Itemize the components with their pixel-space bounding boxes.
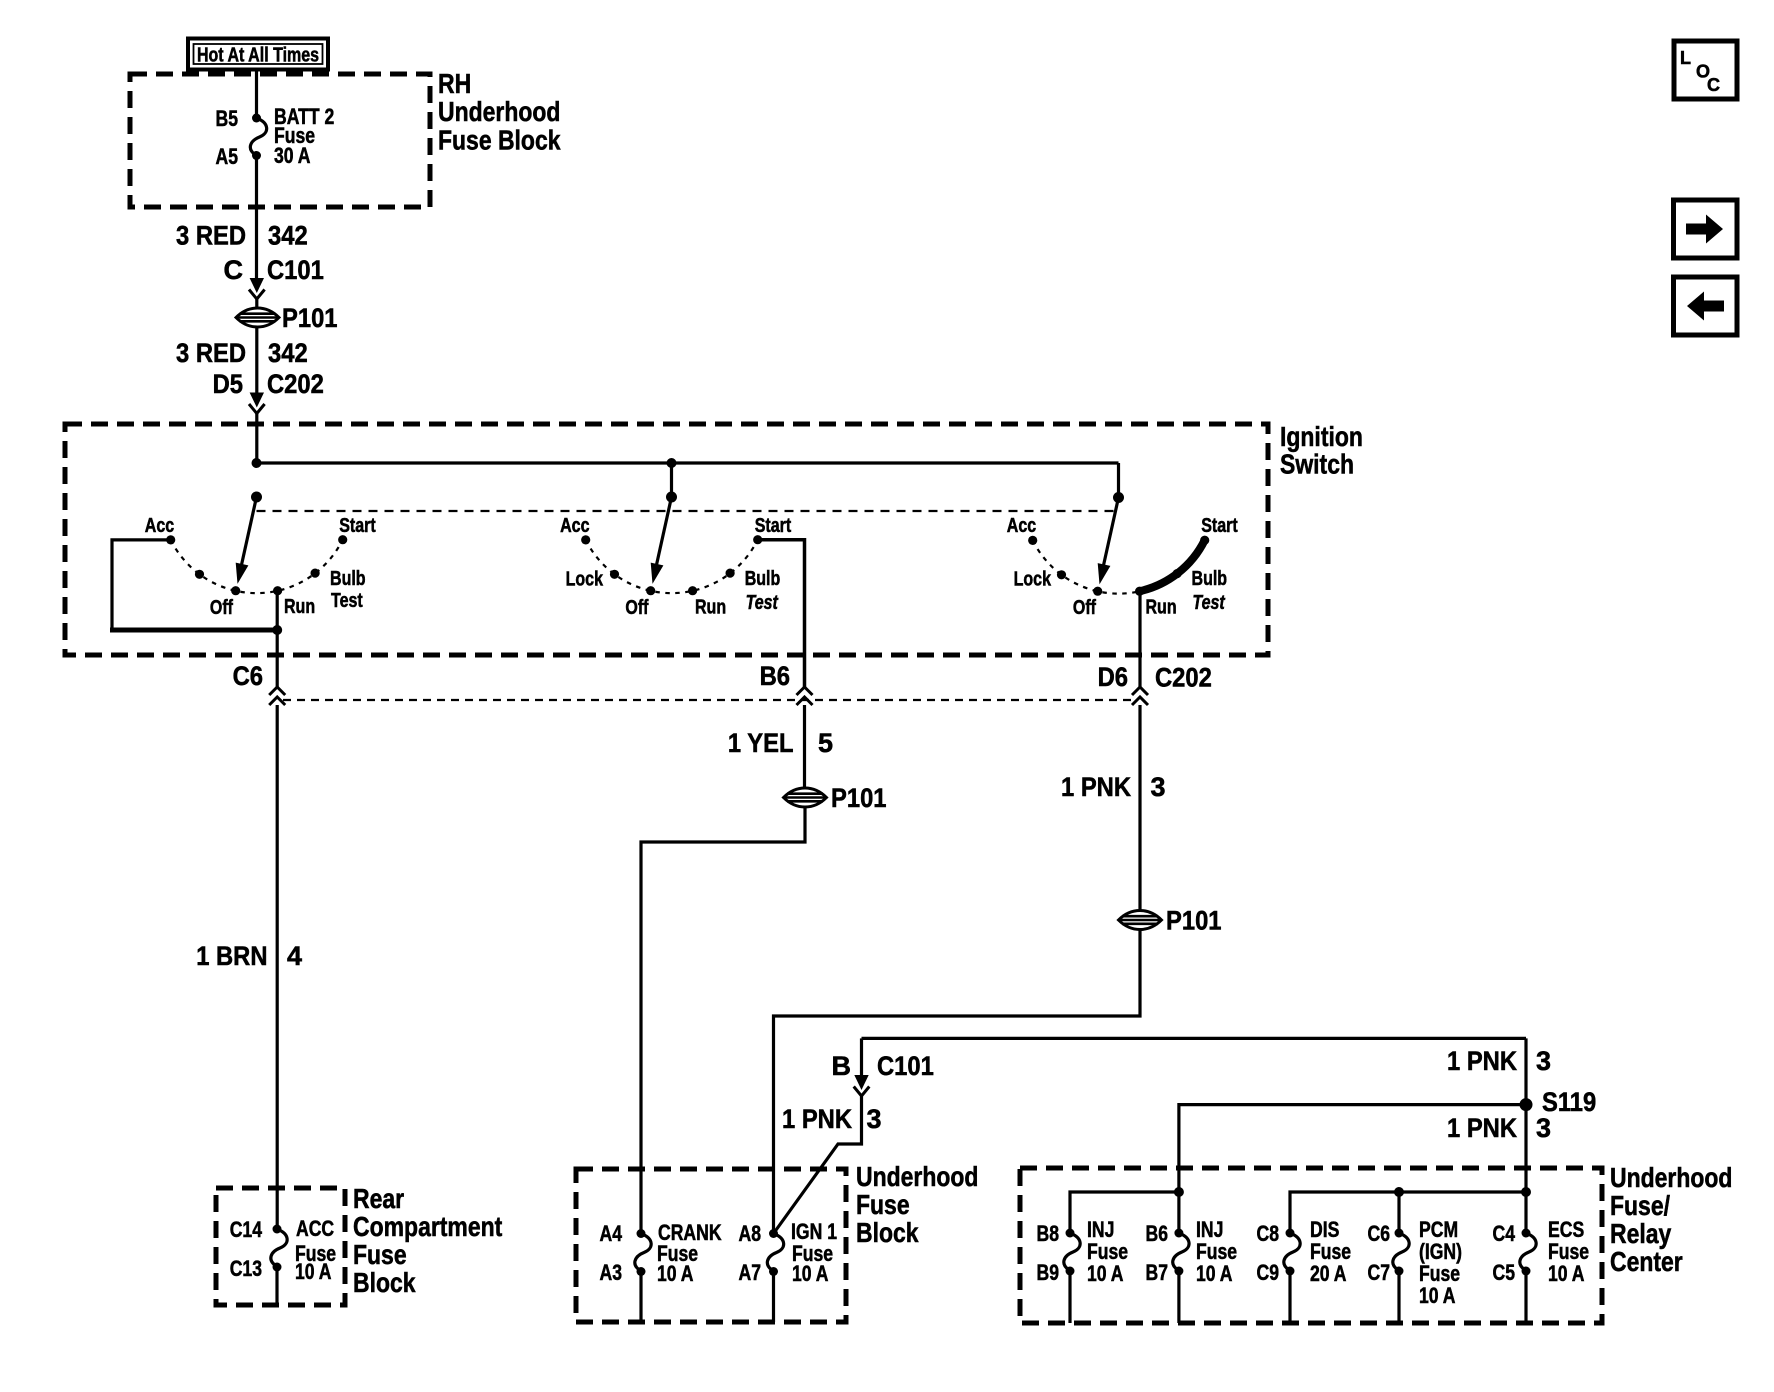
svg-text:A7: A7: [739, 1260, 762, 1285]
svg-text:Fuse/: Fuse/: [1610, 1190, 1670, 1221]
svg-text:Bulb: Bulb: [330, 568, 366, 590]
connector C101 pin B labels: [832, 1051, 934, 1081]
svg-text:3 RED: 3 RED: [176, 221, 246, 251]
svg-text:Compartment: Compartment: [353, 1211, 502, 1242]
grommet P101: [236, 303, 338, 333]
svg-text:20 A: 20 A: [1310, 1261, 1347, 1286]
svg-text:B: B: [832, 1051, 852, 1081]
fuse BATT 2 30 A: [250, 114, 266, 161]
svg-text:Off: Off: [1073, 597, 1096, 619]
svg-text:C6: C6: [233, 661, 263, 691]
wire: down to S119: [1524, 1038, 1527, 1104]
svg-text:C101: C101: [877, 1051, 934, 1081]
wire: 3 RED 342 from fuse A5 to connector C101: [255, 159, 258, 278]
svg-text:D6: D6: [1098, 662, 1128, 692]
value label BATT 2 Fuse 30 A: [274, 104, 334, 168]
svg-text:Acc: Acc: [1007, 515, 1036, 537]
node: junction on INJ bus: [1174, 1187, 1184, 1197]
svg-text:1 BRN: 1 BRN: [196, 941, 267, 971]
node: bus junction at section 2: [667, 458, 677, 468]
svg-text:342: 342: [268, 221, 308, 251]
switch section 3 wiper pivot: [1113, 492, 1124, 503]
svg-text:Center: Center: [1610, 1246, 1683, 1277]
svg-text:10 A: 10 A: [1419, 1283, 1456, 1308]
svg-text:Relay: Relay: [1610, 1218, 1672, 1249]
svg-text:B7: B7: [1146, 1260, 1169, 1285]
wire: bus feeding INJ fuses: [1070, 1192, 1179, 1233]
grommet P101 (yellow wire): [784, 783, 887, 813]
connector C202 (inline arrow): [249, 393, 265, 414]
wire: P101 down and left to CRANK fuse A4: [641, 807, 805, 1234]
svg-text:3 RED: 3 RED: [176, 338, 246, 368]
svg-text:C6: C6: [1368, 1221, 1391, 1246]
connector C202 boundary (thin dashed): [283, 699, 1136, 701]
wire: stub to section 3 wiper: [1117, 463, 1120, 498]
svg-text:Test: Test: [746, 592, 779, 614]
svg-text:Fuse Block: Fuse Block: [438, 125, 561, 156]
wire: INJ fuse 2 output: [1177, 1271, 1180, 1323]
mechanical link (dashed) between wipers: [257, 510, 1119, 512]
wire: [255, 300, 258, 310]
svg-text:Start: Start: [755, 515, 792, 537]
svg-text:10 A: 10 A: [295, 1259, 332, 1284]
svg-text:A8: A8: [739, 1221, 762, 1246]
wire: 1 PNK 3 over to splice S119: [862, 1037, 1527, 1040]
wire label 1 PNK 3: [782, 1104, 882, 1134]
value label INJ Fuse 10 A: [1087, 1217, 1128, 1286]
svg-text:Block: Block: [856, 1217, 919, 1248]
fuse ACC 10 A: [271, 1225, 287, 1272]
fuse INJ 10 A (B6/B7): [1173, 1229, 1189, 1276]
back arrow icon: [1674, 277, 1738, 335]
svg-text:1 PNK: 1 PNK: [1061, 772, 1131, 802]
wire: PCM fuse output: [1397, 1271, 1400, 1323]
svg-text:Underhood: Underhood: [438, 96, 560, 127]
svg-text:Lock: Lock: [1014, 569, 1052, 591]
svg-text:D5: D5: [213, 369, 243, 399]
node: junction at PCM stub: [1394, 1187, 1404, 1197]
LOC legend icon: [1674, 41, 1737, 99]
wire label 1 PNK 3 (below S119): [1447, 1113, 1551, 1143]
connector chevrons at B6: [797, 687, 813, 705]
svg-text:C13: C13: [230, 1256, 262, 1281]
svg-text:Run: Run: [695, 597, 726, 619]
svg-text:A5: A5: [216, 144, 239, 169]
svg-text:Start: Start: [1201, 515, 1238, 537]
switch section 2 contacts and wiper arm: [581, 497, 762, 595]
connector C101 pin C label: [224, 255, 324, 285]
node: bus junction at section 1: [252, 458, 262, 468]
wire into ignition switch: [255, 414, 258, 463]
svg-text:P101: P101: [282, 303, 338, 333]
svg-text:C: C: [224, 255, 244, 285]
wire: C6 to rear compartment fuse block (1 BRN 4): [276, 705, 279, 1229]
fuse DIS 20 A (C8/C9): [1284, 1229, 1300, 1276]
svg-text:342: 342: [268, 338, 308, 368]
svg-text:Run: Run: [284, 596, 315, 618]
node: junction at ECS stub: [1521, 1187, 1531, 1197]
svg-text:Lock: Lock: [566, 569, 604, 591]
wire label 1 YEL 5: [728, 728, 833, 758]
svg-text:Acc: Acc: [560, 515, 589, 537]
grommet P101 (pink wire): [1119, 906, 1222, 936]
svg-text:C202: C202: [267, 369, 324, 399]
svg-text:B9: B9: [1037, 1260, 1060, 1285]
section 1 contact labels: [145, 515, 376, 619]
svg-text:Off: Off: [210, 597, 233, 619]
svg-text:3: 3: [1536, 1046, 1551, 1076]
Underhood Fuse Block (dashed box): [576, 1161, 978, 1322]
wire: stub to PCM fuse: [1397, 1192, 1400, 1233]
svg-text:B8: B8: [1037, 1221, 1060, 1246]
wire: P101 down, left, down to IGN 1 fuse A8: [774, 929, 1141, 1234]
svg-text:P101: P101: [831, 783, 887, 813]
svg-text:RH: RH: [438, 68, 471, 99]
wire: ACC fuse output: [275, 1267, 278, 1305]
svg-text:A3: A3: [600, 1260, 623, 1285]
svg-text:Underhood: Underhood: [1610, 1162, 1732, 1193]
section 3 contact labels: [1007, 515, 1238, 619]
wire: CRANK fuse output: [639, 1272, 642, 1323]
wire: bus feeding DIS/PCM/ECS fuses: [1290, 1192, 1526, 1233]
wiper contact arc Run-to-Start (thick): [1140, 540, 1205, 591]
wire label 1 PNK 3: [1061, 772, 1166, 802]
svg-text:10 A: 10 A: [1087, 1261, 1124, 1286]
switch section 1 contacts and wiper arm: [166, 497, 347, 595]
svg-text:C101: C101: [267, 255, 324, 285]
svg-text:P101: P101: [1166, 906, 1222, 936]
wire: Run contact down to C6: [276, 591, 279, 687]
svg-text:1 YEL: 1 YEL: [728, 728, 794, 758]
switch section 2 wiper pivot: [666, 492, 677, 503]
svg-text:Bulb: Bulb: [745, 568, 781, 590]
value label CRANK Fuse 10 A: [657, 1220, 722, 1286]
svg-text:C202: C202: [1155, 663, 1212, 693]
wire: battery feed into fuse block: [255, 69, 258, 115]
wire: DIS fuse output: [1288, 1271, 1291, 1323]
fuse PCM (IGN) 10 A (C6/C7): [1393, 1229, 1409, 1276]
svg-text:Start: Start: [339, 515, 376, 537]
connector C101 (inline arrow): [249, 278, 265, 299]
svg-text:Bulb: Bulb: [1192, 568, 1228, 590]
svg-text:Ignition: Ignition: [1280, 421, 1363, 452]
svg-text:C9: C9: [1257, 1260, 1280, 1285]
forward arrow icon: [1674, 200, 1738, 258]
wire: ECS fuse output: [1524, 1271, 1527, 1323]
wire label 1 PNK 3 (above S119): [1447, 1046, 1551, 1076]
wire: section 2 Start contact to B6 output: [758, 540, 805, 687]
section 2 contact labels: [560, 515, 791, 619]
svg-text:Hot At All Times: Hot At All Times: [197, 45, 319, 67]
wire: S119 left branch to INJ fuses: [1179, 1105, 1526, 1192]
fuse INJ 10 A (B8/B9): [1064, 1229, 1080, 1276]
wire label 3 RED 342: [176, 338, 308, 368]
svg-text:C: C: [1707, 75, 1720, 95]
svg-text:10 A: 10 A: [1196, 1261, 1233, 1286]
svg-text:5: 5: [818, 728, 833, 758]
value label ACC Fuse 10 A: [295, 1216, 336, 1284]
svg-text:Block: Block: [353, 1267, 416, 1298]
wire: section 3 Run contact down to D6 output: [1138, 591, 1141, 687]
value label INJ Fuse 10 A: [1196, 1217, 1237, 1286]
svg-text:Acc: Acc: [145, 515, 174, 537]
wire: INJ fuse 1 output: [1068, 1271, 1071, 1323]
wire label 1 BRN 4: [196, 941, 302, 971]
svg-text:10 A: 10 A: [657, 1261, 694, 1286]
wire: branch to connector C101 pin B: [860, 1038, 863, 1075]
wire: S119 down into relay center: [1524, 1105, 1527, 1233]
svg-text:B6: B6: [760, 661, 790, 691]
connector C101 (inline arrow, pink wire): [854, 1075, 870, 1096]
value label IGN 1 Fuse 10 A: [791, 1219, 837, 1286]
svg-text:ACC: ACC: [296, 1216, 334, 1241]
svg-text:L: L: [1680, 48, 1691, 68]
Rear Compartment Fuse Block (dashed box): [216, 1183, 502, 1305]
node label "Hot At All Times": [188, 39, 328, 70]
fuse ECS 10 A (C4/C5): [1520, 1229, 1536, 1276]
splice S119: [1520, 1087, 1597, 1117]
wire: stub to section 2 wiper: [670, 463, 673, 497]
svg-text:Underhood: Underhood: [856, 1161, 978, 1192]
svg-text:A4: A4: [600, 1221, 623, 1246]
wire: feed bus inside ignition switch: [257, 461, 1119, 464]
svg-text:Test: Test: [331, 590, 363, 612]
value label ECS Fuse 10 A: [1548, 1217, 1589, 1286]
svg-text:C4: C4: [1493, 1221, 1516, 1246]
svg-text:Run: Run: [1146, 597, 1177, 619]
value label PCM (IGN) Fuse 10 A: [1419, 1217, 1462, 1308]
RH Underhood Fuse Block (dashed box): [130, 68, 561, 207]
svg-text:10 A: 10 A: [792, 1261, 829, 1286]
svg-text:Rear: Rear: [353, 1183, 404, 1214]
wire: D6 to P101 (1 PNK 3): [1138, 705, 1141, 911]
wire: C101 down with jog to IGN 1 fuse A8: [774, 1097, 862, 1234]
svg-text:C5: C5: [1493, 1260, 1516, 1285]
svg-text:B6: B6: [1146, 1221, 1169, 1246]
svg-text:B5: B5: [216, 106, 239, 131]
svg-text:Test: Test: [1192, 592, 1225, 614]
svg-text:C14: C14: [230, 1217, 263, 1242]
fuse IGN 1 10 A: [767, 1229, 783, 1276]
fuse CRANK 10 A: [635, 1229, 651, 1276]
wire: 3 RED 342 from P101 to connector C202: [255, 327, 258, 393]
switch section 3 contacts and wiper arm: [1028, 498, 1209, 596]
svg-text:1 PNK: 1 PNK: [1447, 1113, 1517, 1143]
svg-text:C7: C7: [1368, 1260, 1391, 1285]
svg-text:3: 3: [867, 1104, 882, 1134]
wire label 3 RED 342: [176, 221, 308, 251]
connector chevrons at D6: [1132, 687, 1148, 705]
svg-text:10 A: 10 A: [1548, 1261, 1585, 1286]
wire: B6 to P101 (1 YEL 5): [803, 705, 806, 788]
connector C202 pin D5 label: [213, 369, 324, 399]
svg-text:Off: Off: [625, 597, 648, 619]
ignition switch (dashed box): [65, 421, 1363, 655]
svg-text:Fuse: Fuse: [353, 1239, 407, 1270]
svg-text:1 PNK: 1 PNK: [782, 1104, 852, 1134]
value label DIS Fuse 20 A: [1310, 1217, 1351, 1286]
wire: IGN 1 fuse output: [772, 1272, 775, 1323]
terminal D6 / C202 labels: [1098, 662, 1212, 693]
switch section 1 wiper pivot: [251, 492, 262, 503]
svg-text:3: 3: [1151, 772, 1166, 802]
svg-text:Fuse: Fuse: [856, 1189, 910, 1220]
wire: Acc contact loop to C6 output: [110, 540, 277, 630]
svg-text:3: 3: [1536, 1113, 1551, 1143]
connector chevrons at C6: [269, 687, 285, 705]
svg-text:C8: C8: [1257, 1221, 1280, 1246]
Underhood Fuse/Relay Center (dashed box): [1020, 1162, 1732, 1323]
svg-text:4: 4: [287, 941, 302, 971]
node: junction of Acc loop and Run wire: [272, 625, 282, 635]
svg-text:1 PNK: 1 PNK: [1447, 1046, 1517, 1076]
svg-text:30 A: 30 A: [274, 143, 311, 168]
svg-text:Switch: Switch: [1280, 449, 1354, 480]
